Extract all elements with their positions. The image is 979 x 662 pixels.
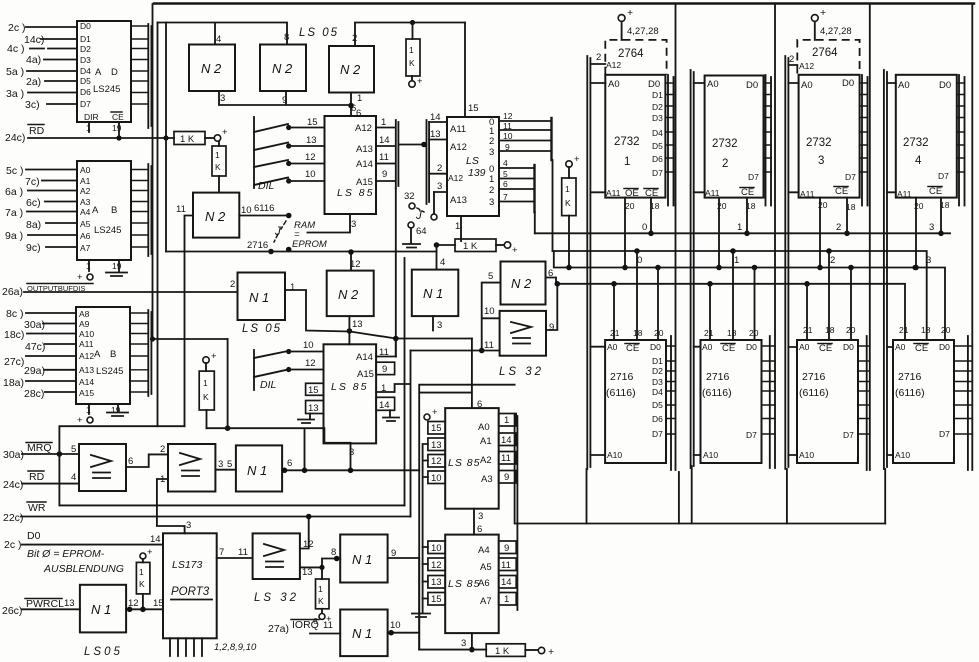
svg-text:4: 4 — [216, 34, 221, 45]
gate N2 G1 (LS05 inverter) — [189, 34, 235, 104]
svg-text:A12: A12 — [799, 61, 814, 71]
svg-text:1: 1 — [624, 156, 630, 168]
svg-text:9: 9 — [382, 169, 387, 180]
wire: G3 input from pull-up rail — [355, 23, 465, 47]
svg-text:32: 32 — [404, 191, 415, 202]
svg-text:2716: 2716 — [706, 371, 730, 383]
PORT3 bottom pin comb — [170, 638, 257, 656]
svg-text:N 1: N 1 — [249, 290, 269, 305]
wires: DIL2 to U6 left pins 10/12 — [289, 340, 324, 370]
svg-text:RD: RD — [29, 125, 45, 137]
svg-text:D7: D7 — [652, 429, 663, 439]
svg-text:9: 9 — [382, 364, 387, 375]
svg-text:13: 13 — [308, 403, 319, 414]
long vertical bus wire mid page — [404, 258, 406, 505]
svg-text:10: 10 — [390, 620, 401, 631]
svg-text:+: + — [512, 245, 518, 256]
svg-text:A11: A11 — [897, 189, 912, 199]
wire: G12 output to riser — [388, 630, 420, 636]
svg-text:A15: A15 — [79, 388, 94, 398]
svg-text:CE: CE — [915, 343, 928, 354]
wire: WR input 22c long line — [3, 502, 411, 524]
wires: RAM top pin verticals bank2 — [710, 251, 755, 340]
svg-text:D1: D1 — [652, 356, 663, 366]
wires: U4 right pins to bus bar — [376, 117, 396, 181]
data ladder bank2 EPROM — [764, 75, 772, 206]
IC LS139 U5 (decoder) — [447, 117, 499, 216]
wire: 2716-select net from top down left side — [165, 23, 167, 252]
svg-text:D6: D6 — [652, 414, 663, 424]
svg-text:1 K: 1 K — [495, 646, 510, 657]
power tap + after R1 — [214, 127, 228, 141]
svg-text:4: 4 — [440, 257, 445, 268]
wire: U13 pin3 to R9 line — [461, 633, 475, 652]
wire: D0 input 2c to PORT3 — [4, 530, 163, 551]
node: A-bus junction at comparator 2 — [393, 336, 399, 342]
riser: bank3 rail to bottom bus — [786, 469, 788, 524]
svg-text:A: A — [95, 67, 102, 78]
OR gate U7 (LS32) — [499, 311, 554, 378]
svg-text:10: 10 — [431, 473, 442, 484]
select line L3 (OE / RD line) — [554, 251, 945, 340]
svg-text:N 2: N 2 — [338, 287, 359, 302]
svg-text:D4: D4 — [652, 128, 663, 138]
svg-text:DIR: DIR — [84, 112, 99, 122]
data ladder bank1 EPROM — [665, 75, 673, 206]
svg-text:A: A — [92, 205, 99, 216]
IC LS245 U1 (data buffer D0-D7) — [77, 21, 131, 122]
resistor 1K R8 — [313, 579, 332, 626]
svg-text:4,27,28: 4,27,28 — [820, 26, 852, 37]
svg-text:21: 21 — [704, 328, 714, 338]
svg-text:D7: D7 — [939, 429, 950, 439]
gate N2 G3 (LS05 inverter) — [329, 33, 374, 119]
gate N1 G5 (output buffer disable) — [230, 273, 295, 321]
ground under U6 left pin boxes — [298, 414, 314, 424]
svg-text:D0: D0 — [746, 80, 758, 91]
svg-text:19: 19 — [111, 405, 121, 415]
svg-text:A11: A11 — [79, 339, 94, 349]
wire: PORT3 pin7 to LS32 U11 — [217, 547, 253, 558]
svg-text:A12: A12 — [606, 60, 621, 70]
svg-text:26c): 26c) — [2, 605, 22, 617]
wire: U11 pin13 to node with R8 and G11 input — [300, 547, 340, 579]
wires: IC3 pins 20/18 down to select lines — [817, 198, 856, 271]
svg-text:14: 14 — [501, 577, 512, 588]
svg-text:11: 11 — [238, 547, 248, 558]
svg-text:A0: A0 — [608, 79, 620, 90]
wires: bar2 to U5 inputs — [429, 112, 447, 192]
svg-text:OE: OE — [625, 188, 639, 199]
svg-text:(6116): (6116) — [702, 387, 732, 399]
svg-text:1: 1 — [565, 184, 570, 194]
svg-text:A8: A8 — [79, 309, 90, 319]
svg-text:D0: D0 — [939, 80, 951, 91]
svg-text:3a ): 3a ) — [6, 88, 24, 100]
wire: IORQ input 27a — [268, 619, 340, 635]
svg-text:14: 14 — [501, 435, 512, 446]
wire: U5 bottom pin 1 to R4 — [455, 216, 461, 241]
svg-text:15: 15 — [307, 117, 318, 128]
svg-text:6: 6 — [351, 103, 356, 114]
svg-text:+: + — [548, 646, 554, 658]
svg-text:N 2: N 2 — [205, 209, 226, 224]
wire: U8 output to U9 input — [126, 454, 168, 467]
svg-text:D0: D0 — [648, 79, 660, 90]
IC LS85 U6 (address comparator lower) — [324, 344, 377, 458]
bus bar: between U4 and LS139 (right) — [427, 120, 430, 204]
svg-text:3: 3 — [489, 147, 494, 158]
gate N1 G7 — [412, 257, 459, 331]
wire: G11 output down the select riser — [388, 558, 420, 650]
svg-text:2764: 2764 — [618, 48, 644, 60]
IC LS245 U3 (address buffer A8-A15) — [76, 307, 130, 404]
svg-text:A4: A4 — [478, 545, 490, 556]
svg-text:A6: A6 — [80, 231, 91, 241]
svg-text:D7: D7 — [748, 172, 759, 182]
gate N1 G11 — [340, 535, 396, 583]
svg-text:D0: D0 — [842, 78, 854, 89]
svg-text:+: + — [147, 547, 153, 558]
EPROM 2732 IC1 — [605, 75, 665, 199]
svg-text:A0: A0 — [898, 80, 910, 91]
svg-text:A9: A9 — [79, 319, 90, 329]
svg-text:12: 12 — [305, 152, 316, 163]
wires: IC1 pins 20/18 down to select lines — [622, 198, 660, 271]
svg-text:(6116): (6116) — [895, 387, 925, 399]
svg-text:D0: D0 — [80, 21, 91, 31]
svg-text:LS05: LS05 — [84, 646, 123, 658]
ground under U13 left pins — [412, 614, 430, 618]
wire: R6 node line to gate chain area — [207, 428, 351, 470]
svg-text:A12: A12 — [355, 123, 372, 134]
data ladder bank1 RAM — [666, 336, 676, 470]
svg-text:A0: A0 — [478, 422, 490, 433]
svg-text:13: 13 — [431, 440, 442, 451]
svg-text:6: 6 — [356, 108, 361, 119]
riser: bank2 rail to bottom bus — [691, 466, 693, 524]
svg-text:K: K — [409, 58, 415, 68]
svg-text:2732: 2732 — [903, 137, 929, 149]
node: bus junction y339 — [150, 336, 155, 341]
svg-text:LS 85: LS 85 — [448, 578, 480, 590]
svg-text:DIL: DIL — [260, 379, 277, 391]
svg-text:29a): 29a) — [24, 365, 45, 377]
svg-text:11: 11 — [501, 560, 511, 571]
svg-text:D2: D2 — [652, 102, 663, 112]
svg-text:5: 5 — [503, 169, 508, 179]
svg-text:D7: D7 — [746, 430, 757, 440]
svg-text:8a): 8a) — [26, 219, 41, 231]
svg-text:20: 20 — [625, 201, 635, 211]
svg-text:20: 20 — [749, 328, 759, 338]
svg-text:LS245: LS245 — [93, 84, 120, 95]
riser: bank1 ladder to bottom bus — [678, 472, 680, 524]
svg-text:24c): 24c) — [5, 132, 25, 144]
svg-text:(6116): (6116) — [606, 387, 636, 399]
svg-text:A14: A14 — [356, 352, 373, 363]
svg-text:1: 1 — [357, 93, 362, 104]
svg-text:10: 10 — [503, 131, 513, 141]
svg-text:+: + — [820, 7, 826, 19]
svg-text:4: 4 — [503, 158, 508, 168]
svg-text:N 2: N 2 — [201, 61, 222, 76]
wire: MRQ input 30a — [3, 442, 79, 461]
svg-text:2: 2 — [789, 54, 794, 65]
svg-text:64: 64 — [416, 226, 427, 237]
dashed 2764 overlay bank3 — [789, 40, 860, 74]
svg-text:15: 15 — [308, 385, 319, 396]
section divider verticals from top border — [676, 4, 973, 471]
svg-text:1: 1 — [737, 222, 742, 233]
svg-text:1,2,8,9,10: 1,2,8,9,10 — [214, 642, 257, 653]
svg-text:CE: CE — [819, 343, 832, 354]
svg-text:20: 20 — [941, 325, 951, 335]
svg-text:9a ): 9a ) — [5, 230, 23, 242]
DIL switch block S2 — [254, 349, 291, 391]
wire: node to N1 gate pin4 — [436, 245, 438, 270]
bus bar bank2 (address rail) — [691, 70, 705, 468]
svg-text:2: 2 — [830, 255, 835, 266]
wire: MRQ branch down to long rail — [59, 454, 404, 505]
svg-text:LS 85: LS 85 — [331, 381, 368, 393]
svg-text:CE: CE — [112, 112, 124, 122]
svg-text:2: 2 — [160, 444, 165, 455]
svg-text:13: 13 — [306, 135, 317, 146]
svg-text:2: 2 — [437, 163, 442, 174]
svg-text:4c ): 4c ) — [7, 43, 25, 55]
svg-text:N 2: N 2 — [340, 62, 361, 77]
svg-text:LS: LS — [466, 155, 479, 167]
bottom bus wire under RAM banks — [516, 523, 885, 525]
resistor 1K R3 (pull-up near G3) — [406, 23, 420, 81]
wire: U5 pin15 from pull-up rail — [465, 23, 479, 118]
svg-text:6: 6 — [128, 456, 133, 467]
svg-text:2716: 2716 — [802, 371, 826, 383]
gate N2 G2 (LS05 inverter) — [260, 32, 306, 106]
wire: MRQ branch up and to N2 G4 — [59, 426, 184, 454]
svg-text:WR: WR — [28, 502, 46, 514]
select line L1 (EPROM CE selects) — [535, 232, 950, 234]
wires: IC2 pins 20/18 down to select lines — [716, 198, 756, 271]
svg-text:1: 1 — [489, 174, 494, 185]
svg-text:2732: 2732 — [614, 136, 640, 148]
svg-text:A0: A0 — [799, 342, 810, 352]
svg-text:15: 15 — [468, 103, 479, 114]
svg-text:RD: RD — [29, 471, 45, 483]
svg-text:D7: D7 — [843, 430, 854, 440]
wire: U9 out to G9 in — [215, 469, 236, 471]
wires/pin boxes U6 right: 11, 9, 1, 14 — [376, 339, 410, 517]
svg-text:LS173: LS173 — [172, 559, 203, 571]
svg-text:CE: CE — [722, 343, 735, 354]
svg-text:A7: A7 — [480, 596, 492, 607]
svg-text:LS245: LS245 — [96, 366, 123, 377]
resistor 1K R1 (RD pull-up, horizontal) — [174, 132, 214, 146]
U3 pins 1/19 with power and ground — [77, 404, 128, 426]
svg-text:A12: A12 — [79, 351, 94, 361]
svg-text:A0: A0 — [702, 342, 713, 352]
svg-text:18c): 18c) — [4, 329, 24, 341]
svg-text:J: J — [274, 226, 281, 238]
svg-text:+: + — [417, 76, 423, 87]
svg-text:A2: A2 — [80, 186, 91, 196]
svg-text:D3: D3 — [652, 113, 663, 123]
wire: second vertical from top area down to MRQ rail — [157, 23, 159, 427]
wire: from U3 bus junction down to R6 line — [227, 339, 229, 428]
svg-text:5a ): 5a ) — [6, 66, 24, 78]
jumper J2 32/64 with ground — [403, 191, 437, 248]
pin box U6 left 13 — [306, 401, 324, 415]
wire: OUTPUTBUFDIS line 26a — [2, 284, 238, 299]
pin boxes U12 left (15,13,12,10) — [428, 422, 445, 485]
svg-text:10: 10 — [431, 543, 442, 554]
power tap + for 2764 bank3 — [811, 7, 851, 40]
resistor 1K R6 (vertical, MRQ area) — [199, 351, 217, 428]
bus bar bank4 (address rail) — [884, 70, 896, 469]
svg-text:A2: A2 — [480, 455, 492, 466]
svg-text:10: 10 — [303, 340, 314, 351]
svg-text:D7: D7 — [845, 172, 856, 182]
svg-text:D7: D7 — [938, 171, 949, 181]
bus bar A: EPROM bank selects down to line L2 — [550, 118, 552, 160]
labels 0..3 on line L1 — [0, 0, 1, 1]
svg-text:2: 2 — [836, 222, 841, 233]
svg-text:13: 13 — [64, 598, 75, 609]
wires: A8-A15 input lines — [3, 308, 76, 400]
wire: G9 output rail to comparator 3 — [282, 468, 420, 474]
svg-text:PORT3: PORT3 — [171, 586, 210, 598]
svg-text:18a): 18a) — [3, 377, 24, 389]
IC LS173 PORT3 U10 — [163, 533, 217, 638]
wire: U12 pin3 to U13 pin6 — [474, 509, 483, 535]
svg-text:2716: 2716 — [898, 371, 922, 383]
svg-text:A10: A10 — [79, 329, 94, 339]
wires: IC4 pins 20/18 down to select lines — [913, 198, 950, 271]
svg-text:3: 3 — [929, 222, 934, 233]
svg-text:21: 21 — [803, 325, 813, 335]
svg-text:12: 12 — [431, 560, 442, 571]
svg-text:LS245: LS245 — [94, 225, 121, 236]
svg-text:CE: CE — [626, 343, 639, 354]
svg-text:EPROM: EPROM — [292, 239, 327, 250]
svg-text:3: 3 — [818, 155, 824, 167]
resistor 1K R4 (horizontal under U5) — [434, 239, 504, 252]
wires: U5 outputs group2 to bar B — [499, 158, 535, 202]
svg-text:2732: 2732 — [712, 138, 738, 150]
resistor 1K R7 (PWRCL pull-up) — [136, 547, 153, 609]
svg-text:6c): 6c) — [26, 197, 41, 209]
svg-text:2a): 2a) — [26, 76, 41, 88]
svg-text:J: J — [415, 210, 422, 222]
svg-text:18: 18 — [825, 325, 835, 335]
RAM 2716/6116 IC5 — [605, 328, 666, 463]
svg-text:A15: A15 — [357, 369, 374, 380]
svg-text:1 K: 1 K — [180, 134, 195, 145]
wire: G1/G2/G3 outputs to LS85 pin junction — [219, 91, 354, 116]
svg-text:1: 1 — [455, 221, 460, 232]
svg-text:6: 6 — [287, 458, 292, 469]
wire: bar to bar link — [398, 142, 426, 148]
svg-text:47c): 47c) — [25, 341, 45, 353]
svg-text:10: 10 — [484, 306, 495, 317]
svg-text:18: 18 — [727, 328, 737, 338]
svg-text:A5: A5 — [80, 219, 91, 229]
power tap + at U12 pin 15 — [424, 407, 438, 420]
svg-text:28c): 28c) — [24, 388, 44, 400]
svg-text:2716: 2716 — [247, 240, 268, 251]
wires: D0-D7 input lines with connector labels — [6, 22, 77, 111]
svg-text:A12: A12 — [450, 142, 467, 153]
svg-text:D3: D3 — [652, 377, 663, 387]
svg-text:30a): 30a) — [24, 319, 45, 331]
select line L4 (RAM WE / pin21 line) — [555, 281, 906, 340]
svg-text:D5: D5 — [80, 76, 91, 86]
svg-text:10: 10 — [241, 205, 252, 216]
svg-text:+: + — [211, 351, 217, 362]
svg-text:AUSBLENDUNG: AUSBLENDUNG — [43, 563, 124, 575]
gate N2 G8 (near LS32) — [488, 262, 553, 305]
svg-text:N 1: N 1 — [247, 463, 267, 478]
svg-text:2732: 2732 — [806, 137, 832, 149]
bus bar: between U4 and LS139 (left) — [396, 120, 399, 188]
svg-text:K: K — [139, 579, 145, 589]
svg-text:2: 2 — [722, 158, 728, 170]
svg-text:K: K — [203, 392, 209, 402]
svg-text:3c): 3c) — [25, 99, 40, 111]
wires: A0-A7 input lines — [5, 165, 77, 254]
svg-text:A0: A0 — [80, 165, 91, 175]
svg-text:D3: D3 — [80, 55, 91, 65]
bus bar bank1 (address rail) — [587, 56, 605, 469]
gate N2 G4 (6116/2716 select) — [176, 193, 252, 238]
svg-text:A11: A11 — [800, 189, 815, 199]
wire: U13 left pins to ground — [423, 547, 428, 599]
svg-text:A: A — [94, 349, 101, 360]
wire: G5 output to gate chain rail — [285, 290, 472, 339]
svg-text:5: 5 — [227, 459, 232, 470]
EPROM 2732 IC4 — [896, 75, 957, 199]
wire: bottom pull-up line — [419, 649, 486, 651]
svg-text:15: 15 — [431, 423, 442, 434]
svg-text:B: B — [111, 205, 117, 216]
pin boxes U12 right (1,14,11,9) — [499, 414, 517, 484]
svg-text:11: 11 — [176, 204, 186, 215]
select line L2 (RAM CE selects) — [553, 248, 932, 340]
data ladder bank3 EPROM — [860, 75, 868, 206]
svg-text:12: 12 — [305, 358, 316, 369]
wire: top feed to G1/G2 inputs — [158, 23, 288, 45]
svg-text:CE: CE — [835, 186, 848, 197]
svg-text:26a): 26a) — [2, 286, 23, 298]
svg-text:D1: D1 — [652, 90, 663, 100]
svg-text:24c): 24c) — [3, 479, 23, 491]
svg-text:30a): 30a) — [3, 449, 24, 461]
svg-text:D2: D2 — [652, 366, 663, 376]
wire: U12 left pins to ground rail — [423, 444, 428, 613]
svg-text:8c ): 8c ) — [6, 308, 24, 320]
DIL switch block S1 — [254, 117, 291, 192]
wires: RAM top pin verticals bank1 — [614, 251, 658, 340]
svg-text:7: 7 — [503, 192, 508, 202]
svg-text:3: 3 — [437, 181, 442, 192]
svg-text:A13: A13 — [450, 195, 467, 206]
IC LS85 U13 (I/O comparator lower) — [445, 535, 499, 634]
svg-text:4,27,28: 4,27,28 — [627, 26, 659, 37]
U2 pins 1/19 with power and ground — [77, 260, 127, 283]
svg-text:14c): 14c) — [24, 34, 44, 46]
bus bar: address bus collector right of U3 — [130, 310, 151, 396]
